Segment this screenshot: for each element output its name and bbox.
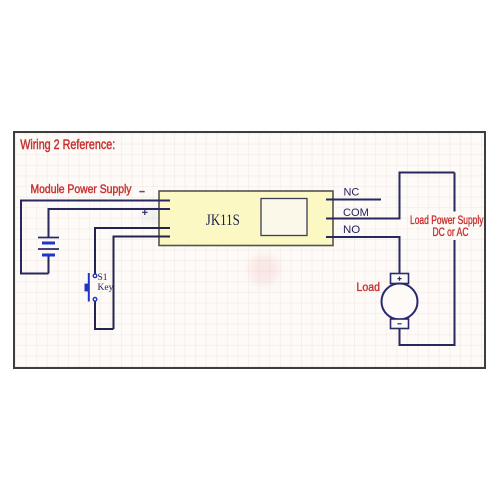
- module JK11S relay window: [261, 199, 307, 236]
- svg-text:Module Power Supply: Module Power Supply: [31, 184, 132, 196]
- svg-text:Load Power Supply: Load Power Supply: [410, 215, 484, 227]
- wire: module pin2 (+) to battery positive: [49, 209, 171, 237]
- wire: load power supply right side upper segment: [454, 173, 456, 212]
- svg-text:NO: NO: [343, 224, 360, 236]
- svg-text:COM: COM: [343, 207, 369, 219]
- polarity mark - at module pin1: [139, 191, 144, 193]
- battery (Module Power Supply source): [38, 238, 59, 274]
- wire: COM contact up to load supply top: [326, 173, 455, 219]
- svg-text:NC: NC: [344, 187, 360, 199]
- svg-text:Key: Key: [98, 283, 114, 293]
- svg-text:DC or AC: DC or AC: [433, 227, 469, 239]
- wire: NC contact: [326, 199, 381, 201]
- wire: switch S1 bottom terminal to return riser: [95, 301, 114, 329]
- polarity mark + at module pin2: [142, 209, 148, 215]
- wire: NO contact down to load motor: [326, 237, 400, 274]
- svg-text:JK11S: JK11S: [206, 212, 240, 229]
- svg-text:Wiring 2 Reference:: Wiring 2 Reference:: [20, 136, 115, 152]
- wire: module pin1 (-) left loop to battery negative: [21, 201, 170, 274]
- wire: module pin4 down to switch return: [114, 237, 171, 330]
- pushbutton switch S1: [85, 273, 97, 302]
- svg-text:Load: Load: [357, 282, 381, 294]
- wire: load power supply right side lower segment to motor bottom: [400, 240, 455, 345]
- svg-text:S1: S1: [98, 273, 108, 283]
- wire: module pin3 to switch S1 top terminal: [95, 228, 170, 274]
- load motor M: [382, 274, 418, 329]
- module JK11S body: [159, 191, 333, 246]
